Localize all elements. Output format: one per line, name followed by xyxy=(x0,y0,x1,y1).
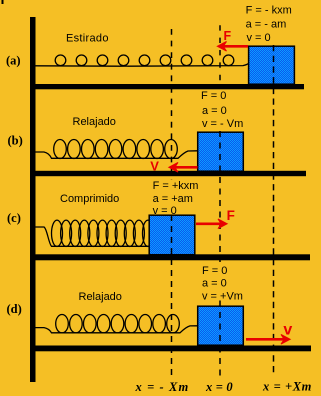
dashed line x=0 xyxy=(219,25,221,376)
svg-text:a = - am: a = - am xyxy=(246,18,287,30)
svg-text:v = 0: v = 0 xyxy=(153,205,177,217)
dashed line x=-Xm xyxy=(171,29,173,377)
block (c) xyxy=(149,215,195,255)
svg-text:F = - kxm: F = - kxm xyxy=(246,5,292,17)
floor (d) xyxy=(30,346,311,352)
spring (d) coil loops xyxy=(56,315,180,333)
svg-text:(d): (d) xyxy=(7,302,22,316)
svg-text:x = 0: x = 0 xyxy=(205,380,233,394)
svg-text:Estirado: Estirado xyxy=(66,33,109,45)
top-left artifact tick xyxy=(2,0,4,4)
arrow F (a) left xyxy=(217,42,248,52)
wall xyxy=(30,17,36,382)
svg-text:v: v xyxy=(283,322,292,339)
spring (c) compressed: baseline xyxy=(35,227,150,246)
spring (d) relaxed: baseline xyxy=(35,326,198,333)
svg-text:Relajado: Relajado xyxy=(73,116,116,128)
svg-text:(a): (a) xyxy=(6,54,21,68)
spring (a) stretched: baseline xyxy=(35,64,249,67)
arrow F (c) right xyxy=(196,219,227,229)
svg-text:F = +kxm: F = +kxm xyxy=(153,180,199,192)
svg-text:a = +am: a = +am xyxy=(153,193,193,205)
spring (a) coil loops xyxy=(55,55,234,66)
block (a) xyxy=(249,46,295,84)
svg-text:v = 0: v = 0 xyxy=(247,32,271,44)
dashed line x=+Xm xyxy=(273,45,275,377)
svg-text:(b): (b) xyxy=(8,134,23,148)
spring (b) coil loops xyxy=(54,140,178,159)
svg-text:x = - Xm: x = - Xm xyxy=(135,380,190,394)
arrow v (d) right xyxy=(246,335,290,345)
svg-text:v = - Vm: v = - Vm xyxy=(202,118,243,130)
svg-text:V: V xyxy=(150,159,159,174)
spring (c) coil loops xyxy=(52,220,154,246)
svg-text:x = +Xm: x = +Xm xyxy=(262,380,312,394)
arrow V (b) left xyxy=(169,163,198,173)
block (b) xyxy=(198,132,244,171)
svg-text:Comprimido: Comprimido xyxy=(60,193,119,205)
svg-text:F = 0: F = 0 xyxy=(201,90,226,102)
svg-text:(c): (c) xyxy=(7,211,21,225)
spring (b) relaxed: baseline xyxy=(35,151,198,159)
svg-text:F: F xyxy=(227,208,235,223)
svg-text:Relajado: Relajado xyxy=(79,291,122,303)
svg-text:a = 0: a = 0 xyxy=(202,105,227,117)
svg-text:a = 0: a = 0 xyxy=(202,277,227,289)
svg-text:F = 0: F = 0 xyxy=(202,265,227,277)
floor (c) xyxy=(30,254,310,260)
floor (b) xyxy=(30,171,306,176)
floor (a) xyxy=(30,84,304,89)
svg-text:F: F xyxy=(224,29,232,43)
svg-text:v = +Vm: v = +Vm xyxy=(202,290,243,302)
block (d) xyxy=(198,306,244,345)
